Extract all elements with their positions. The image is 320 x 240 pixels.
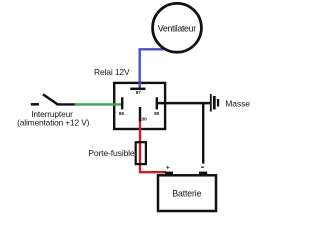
wire blue stub into relay bbox=[138, 82, 140, 89]
relay pin 87 bbox=[130, 88, 145, 91]
switch S1 left contact bbox=[31, 103, 39, 106]
svg-text:86: 86 bbox=[119, 111, 125, 116]
svg-text:30: 30 bbox=[141, 117, 147, 122]
wire green: switch to relay pin 86 bbox=[75, 103, 122, 105]
relay pin 86 bbox=[121, 97, 123, 109]
wire blue: relay pin 87 to ventilateur bbox=[140, 49, 164, 89]
svg-text:85: 85 bbox=[154, 111, 160, 116]
svg-text:Batterie: Batterie bbox=[172, 189, 201, 199]
relay pin 30 bbox=[139, 107, 141, 121]
wire black: switch to green wire bbox=[57, 103, 77, 105]
svg-text:Porte-fusible: Porte-fusible bbox=[88, 148, 135, 158]
svg-text:Masse: Masse bbox=[225, 98, 250, 108]
svg-text:87: 87 bbox=[136, 90, 142, 95]
svg-text:(alimentation +12 V): (alimentation +12 V) bbox=[17, 118, 90, 128]
wire red: relay pin 30 through fuse to battery plus bbox=[140, 120, 166, 173]
motor M1 Ventilateur bbox=[153, 3, 202, 52]
wire black: ground junction down to battery minus bbox=[202, 102, 204, 164]
battery plus terminal tab bbox=[165, 172, 173, 175]
svg-text:+: + bbox=[166, 165, 170, 172]
switch S1 lever bbox=[43, 94, 58, 104]
wire black: relay pin 85 to ground bbox=[157, 102, 210, 105]
label minus bbox=[201, 167, 204, 168]
relay pin 85 bbox=[156, 97, 158, 109]
svg-text:Ventilateur: Ventilateur bbox=[158, 23, 197, 33]
fuse holder F1 bbox=[136, 142, 146, 164]
ground symbol Masse bbox=[211, 94, 218, 112]
battery minus terminal tab bbox=[199, 172, 207, 175]
relay K1 body bbox=[114, 83, 165, 129]
svg-text:Relai 12V: Relai 12V bbox=[94, 67, 130, 77]
battery BT1 body bbox=[158, 175, 216, 211]
